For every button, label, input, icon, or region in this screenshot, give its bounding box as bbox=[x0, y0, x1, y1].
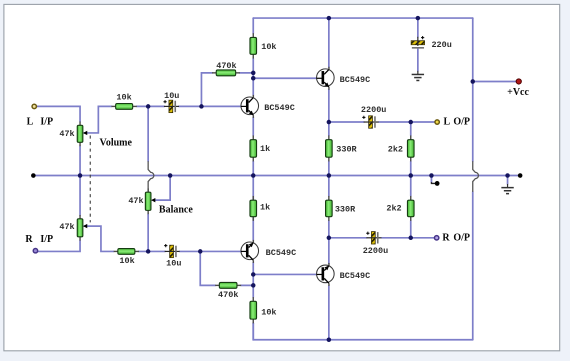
node common rail right end bbox=[518, 173, 523, 178]
wire 10k R to 10u cap R bbox=[139, 250, 166, 252]
ground symbol below 220u bbox=[412, 71, 424, 81]
wire volume pot L bottom through ground to volume pot R top bbox=[79, 146, 81, 215]
wire 470k L to Q1 collector node bbox=[240, 72, 254, 74]
capacitor 10u (L input coupling) bbox=[163, 91, 179, 112]
svg-text:Volume: Volume bbox=[100, 138, 133, 149]
schematic drawing bbox=[25, 16, 529, 342]
wire Q3 collector node to base of Q4 bbox=[253, 273, 317, 275]
svg-text:1k: 1k bbox=[260, 203, 270, 213]
svg-text:R: R bbox=[25, 234, 33, 245]
wire 470k R to Q3 collector node bbox=[241, 284, 254, 286]
junction Q2 emitter / L output bbox=[327, 120, 332, 125]
resistor 330R (L output) bbox=[326, 135, 358, 161]
wire col A: top rail to 10k bbox=[252, 18, 254, 33]
resistor 10k (L series input) bbox=[111, 93, 136, 110]
svg-text:BC549C: BC549C bbox=[340, 75, 371, 85]
svg-text:220u: 220u bbox=[431, 40, 451, 50]
wire hop: right rail over ground rail bbox=[473, 161, 479, 192]
junction 470k L / Q1 collector bbox=[251, 71, 256, 76]
dashed gang link between volume wipers bbox=[89, 136, 91, 223]
wire 470k R junction riser bbox=[200, 251, 215, 285]
wire right rail upper segment bbox=[472, 18, 474, 161]
terminal L O/P bbox=[435, 120, 439, 124]
junction 220u / top rail bbox=[416, 16, 421, 21]
junction balance top / L line bbox=[146, 104, 151, 109]
svg-text:BC549C: BC549C bbox=[266, 248, 297, 258]
wire L wiper to 10k bbox=[84, 106, 111, 133]
wire R output line to 2200u bbox=[329, 237, 367, 239]
junction 1k column / ground rail bbox=[251, 173, 256, 178]
capacitor 10u (R input coupling) bbox=[164, 244, 181, 269]
wire Q2 emitter to L output node bbox=[328, 89, 330, 122]
capacitor 2200u (L output coupling) bbox=[361, 105, 386, 128]
svg-text:10k: 10k bbox=[261, 308, 276, 318]
terminal L I/P bbox=[32, 104, 36, 108]
junction balance bottom / R line bbox=[146, 249, 151, 254]
potentiometer 47k volume R bbox=[59, 215, 87, 241]
wire 330R R column bbox=[328, 176, 330, 238]
resistor 10k (R series input) bbox=[114, 249, 139, 266]
svg-text:2k2: 2k2 bbox=[386, 203, 401, 213]
wire +Vcc feed bbox=[473, 80, 517, 82]
transistor Q1 BC549C (L input) bbox=[241, 95, 295, 118]
svg-text:47k: 47k bbox=[128, 196, 143, 206]
terminal R I/P bbox=[33, 249, 37, 253]
svg-text:2200u: 2200u bbox=[363, 246, 388, 256]
wire 10k L to 10u cap L bbox=[137, 105, 165, 107]
wire Q1 collector node to base of Q2 bbox=[253, 77, 317, 79]
svg-text:330R: 330R bbox=[335, 204, 356, 214]
svg-text:BC549C: BC549C bbox=[264, 103, 295, 113]
terminal R O/P bbox=[434, 236, 438, 240]
junction +Vcc / right rail bbox=[471, 79, 476, 84]
potentiometer 47k balance bbox=[128, 188, 155, 214]
potentiometer 47k volume L bbox=[59, 122, 87, 147]
wire ground rail bbox=[33, 175, 520, 177]
wire tack elbow bbox=[431, 182, 435, 183]
resistor 10k (Q2 collector load top) bbox=[250, 33, 277, 58]
svg-text:47k: 47k bbox=[59, 222, 74, 232]
wire Q2 collector to top rail bbox=[328, 18, 330, 67]
wire 220u to ground bbox=[417, 49, 419, 71]
resistor 1k (Q3 emitter) bbox=[250, 196, 270, 221]
resistor 10k (Q4 collector load bottom) bbox=[250, 297, 277, 323]
svg-text:I/P: I/P bbox=[40, 116, 53, 127]
svg-text:2200u: 2200u bbox=[361, 105, 386, 115]
junction Q1 collector / Q2 base bbox=[251, 76, 256, 81]
wire tack stub bbox=[430, 176, 432, 183]
junction 2k2 column / ground rail bbox=[409, 173, 414, 178]
wire Q3 emitter to 1k R bbox=[252, 196, 254, 240]
node tack pin bbox=[435, 181, 440, 186]
wire R input to volume pot R bottom bbox=[36, 241, 80, 252]
wire Q3 collector down bbox=[252, 262, 254, 297]
wire balance column upper bbox=[147, 106, 149, 161]
transistor Q4 BC549C (R output) bbox=[317, 263, 371, 286]
resistor 2k2 (L load) bbox=[388, 135, 414, 161]
resistor 1k (Q1 emitter) bbox=[250, 135, 270, 161]
junction 2k2 R / R output bbox=[409, 236, 414, 241]
resistor 470k (R feedback) bbox=[215, 282, 241, 300]
node common rail left end bbox=[31, 173, 36, 178]
junction 470k R / Q3 collector bbox=[251, 283, 256, 288]
junction Q4 collector / bottom rail bbox=[327, 338, 332, 343]
svg-text:330R: 330R bbox=[336, 144, 357, 154]
transistor Q2 BC549C (L output) bbox=[317, 67, 371, 90]
wire Q4 emitter to R output node bbox=[328, 238, 330, 264]
wire hop: balance column over ground rail bbox=[148, 161, 154, 192]
wire col A: 10k to Q1 collector bbox=[252, 59, 254, 96]
wire right rail lower segment bbox=[472, 192, 474, 340]
junction balance wiper / ground rail bbox=[168, 173, 173, 178]
wire 1k R to ground rail bbox=[252, 176, 254, 196]
svg-text:10k: 10k bbox=[119, 256, 134, 266]
capacitor 220u (supply decoupling) bbox=[411, 36, 452, 50]
wire 2200u L to L O/P terminal bbox=[379, 121, 435, 123]
junction 470k L riser / L line bbox=[199, 104, 204, 109]
svg-text:10k: 10k bbox=[261, 42, 276, 52]
svg-text:L: L bbox=[444, 117, 451, 128]
wire Q4 collector to bottom rail bbox=[328, 286, 330, 340]
wire 10u cap L to Q1 base bbox=[179, 105, 242, 107]
wire balance column lower bbox=[147, 214, 149, 251]
svg-text:470k: 470k bbox=[218, 290, 238, 300]
svg-text:R: R bbox=[442, 233, 450, 244]
svg-text:47k: 47k bbox=[59, 129, 74, 139]
wire 10u cap R to Q3 base bbox=[179, 250, 241, 252]
svg-text:10k: 10k bbox=[116, 93, 131, 103]
junction volume pots / ground rail bbox=[78, 173, 83, 178]
wire L output line to 2200u bbox=[329, 121, 364, 123]
svg-text:BC549C: BC549C bbox=[340, 271, 371, 281]
wire balance wiper to ground rail bbox=[153, 176, 170, 201]
svg-text:O/P: O/P bbox=[453, 233, 470, 244]
wire 2k2 R column bbox=[410, 176, 412, 238]
resistor 330R (R output) bbox=[326, 196, 357, 221]
junction 2k2 L / L output bbox=[409, 120, 414, 125]
svg-text:I/P: I/P bbox=[40, 234, 53, 245]
wire Q1 emitter to 1k L bbox=[252, 117, 254, 135]
svg-text:2k2: 2k2 bbox=[388, 144, 403, 154]
ground symbol on ground rail bbox=[501, 184, 513, 194]
svg-text:10u: 10u bbox=[166, 259, 181, 269]
wire 1k L to ground rail bbox=[252, 161, 254, 175]
svg-text:10u: 10u bbox=[164, 91, 179, 101]
terminal +Vcc bbox=[516, 79, 521, 84]
resistor 2k2 (R load) bbox=[386, 196, 414, 221]
wire ground symbol stub at rail bbox=[507, 176, 509, 185]
wire top supply rail bbox=[253, 17, 473, 19]
junction Q4 emitter / R output bbox=[327, 236, 332, 241]
wire L input to volume pot top bbox=[36, 106, 80, 121]
wire bottom supply rail bbox=[253, 323, 473, 340]
svg-text:Balance: Balance bbox=[159, 204, 193, 215]
junction 330R column / ground rail bbox=[327, 173, 332, 178]
transistor Q3 BC549C (R input) bbox=[241, 240, 296, 263]
capacitor 2200u (R output coupling) bbox=[363, 232, 388, 257]
junction 470k R riser / R line bbox=[198, 249, 203, 254]
junction Q2 collector / top rail bbox=[327, 16, 332, 21]
wire 220u from top rail bbox=[417, 18, 419, 37]
wire R wiper down to 10k R bbox=[84, 226, 113, 251]
wire 470k L junction riser bbox=[201, 73, 212, 107]
svg-text:1k: 1k bbox=[260, 144, 270, 154]
junction tack / ground rail bbox=[429, 173, 434, 178]
wire 2200u R to R O/P terminal bbox=[382, 237, 435, 239]
resistor 470k (L feedback) bbox=[212, 61, 240, 76]
svg-text:470k: 470k bbox=[216, 61, 236, 71]
svg-text:L: L bbox=[27, 116, 34, 127]
svg-text:+Vcc: +Vcc bbox=[507, 87, 529, 98]
wire 2k2 L column bbox=[410, 122, 412, 175]
junction ground symbol / rail bbox=[505, 173, 510, 178]
wire 330R L column bbox=[328, 122, 330, 175]
wire 10k bottom to bottom rail bbox=[252, 323, 254, 340]
svg-text:O/P: O/P bbox=[453, 117, 470, 128]
junction Q3 collector / Q4 base bbox=[251, 272, 256, 277]
